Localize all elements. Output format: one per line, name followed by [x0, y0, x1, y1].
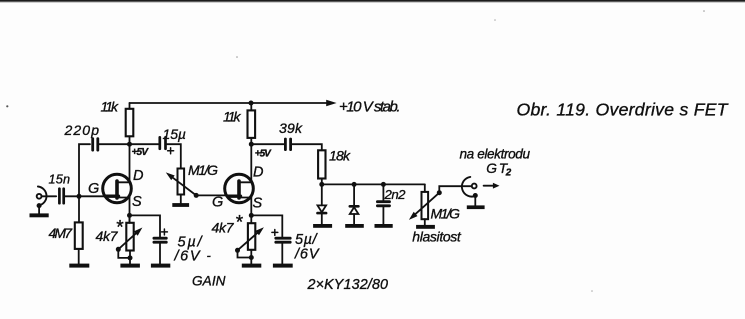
wire source Q1 down: [129, 198, 131, 223]
node trimmer1 bottom: [128, 255, 133, 260]
wire wiper to gate Q2: [196, 194, 228, 196]
wire bus to pot hlasitost: [424, 184, 426, 192]
wiper arrow 4k7 (stage 2): [235, 227, 264, 257]
wire +5V2 to C 39k: [251, 143, 283, 145]
svg-text:+10 V stab.: +10 V stab.: [339, 99, 401, 116]
wire 18k to bus: [321, 179, 323, 185]
wire 2n2 to ground: [382, 207, 384, 224]
wire wiper to output: [439, 186, 471, 193]
svg-text:D: D: [133, 168, 143, 184]
svg-text:*: *: [116, 218, 124, 239]
wire pot2 to ground: [424, 219, 426, 225]
wire drain Q2 up: [250, 144, 252, 182]
plus sign (15u): [168, 148, 174, 154]
wiper arm M1/G: [166, 172, 199, 198]
node trimmer2 bottom: [249, 255, 254, 260]
node bus/18k: [319, 182, 324, 187]
wire 4M7 to ground: [78, 249, 80, 264]
svg-text:2×KY132/80: 2×KY132/80: [307, 277, 389, 293]
node rail / 11k stage2: [249, 101, 254, 106]
potentiometer M1/G hlasitost: [422, 192, 429, 219]
wire diode D1: [321, 184, 323, 205]
wire to C 2n2: [382, 184, 384, 200]
wire C5u to ground: [159, 244, 161, 264]
wire C15u to pot M1/G: [167, 144, 181, 168]
wire input to C 15n: [42, 195, 57, 197]
capacitor 2n2: [377, 202, 389, 206]
wire bus: [322, 183, 425, 185]
plus sign (5u stage2): [272, 230, 278, 236]
wire 11k2 bottom: [250, 138, 252, 144]
resistor 4M7: [75, 222, 83, 249]
resistor 11k (stage 1): [126, 109, 134, 137]
ground (trimmer 1): [120, 264, 139, 268]
svg-text:-: -: [207, 248, 212, 263]
svg-text:220p: 220p: [64, 122, 100, 138]
ground (trimmer 2): [242, 264, 261, 268]
scan speck: [494, 19, 496, 21]
svg-text:GAIN: GAIN: [192, 274, 226, 289]
trimmer 4k7 (stage 1): [126, 223, 133, 251]
scan speck: [6, 105, 8, 107]
resistor 18k: [318, 150, 325, 178]
output jack J2: [462, 177, 478, 206]
wire 11k bottom to +5V node: [129, 136, 131, 144]
node +5V (stage 2): [249, 142, 254, 147]
input jack J1: [37, 187, 47, 214]
ground (C5u stage2): [273, 264, 293, 268]
svg-text:18k: 18k: [329, 148, 351, 164]
wire C39k to R 18k: [292, 144, 322, 150]
svg-text:15µ: 15µ: [163, 126, 187, 142]
arrow rail end: [326, 100, 336, 107]
svg-text:4k7: 4k7: [212, 220, 235, 236]
ground (2n2): [375, 224, 393, 228]
svg-text:G: G: [212, 194, 223, 210]
ground (pot hlasitost): [416, 225, 435, 229]
node S1: [127, 213, 132, 218]
capacitor 39k: [285, 139, 290, 150]
svg-text:39k: 39k: [279, 120, 303, 136]
svg-text:M1/G: M1/G: [431, 206, 461, 222]
wire S2 to trimmer 4k7 (2): [250, 198, 252, 224]
capacitor 5u/6V (stage 1): [154, 238, 166, 242]
svg-text:Obr. 119. Overdrive s FET: Obr. 119. Overdrive s FET: [517, 99, 729, 119]
svg-text:G: G: [88, 181, 99, 197]
node A (gate node): [77, 194, 82, 199]
capacitor 15u: [160, 137, 166, 149]
wire C220p to drain node: [99, 143, 129, 145]
wire pot M1/G to ground: [180, 195, 182, 204]
node bus/D2: [352, 182, 357, 187]
node bus/2n2: [381, 182, 386, 187]
wire node A to gate Q1: [79, 195, 106, 197]
potentiometer M1/G (stage 1): [178, 169, 185, 195]
node S2: [249, 213, 254, 218]
capacitor 5u/6V (stage 2): [276, 238, 290, 242]
plus sign (5u stage1): [162, 229, 168, 235]
ground (C5u stage1): [151, 264, 170, 268]
wire drain Q1 up: [129, 144, 131, 182]
wire +5V node to C 15u: [130, 143, 159, 145]
wire +10V power rail: [130, 102, 329, 104]
svg-text:11k: 11k: [223, 109, 242, 125]
scan speck: [236, 56, 238, 58]
wiper arrow 4k7 (stage 1): [116, 228, 143, 258]
svg-text:*: *: [235, 212, 243, 233]
svg-text:/6V: /6V: [294, 247, 320, 263]
svg-text:na elektrodu: na elektrodu: [460, 147, 531, 162]
svg-text:S: S: [132, 194, 142, 210]
wire C5u2 to ground: [281, 244, 283, 264]
svg-text:+5V: +5V: [132, 147, 150, 158]
diode D2: [350, 206, 359, 224]
svg-text:S: S: [253, 196, 263, 212]
wire S1 to C 5u: [130, 215, 161, 236]
node +5V (stage 1): [127, 142, 132, 147]
ground (input jack): [30, 213, 49, 217]
ground (D1): [313, 224, 332, 228]
wire diode D2: [353, 184, 355, 206]
svg-text:11k: 11k: [101, 98, 120, 114]
capacitor 220p: [93, 139, 98, 151]
wire C15n to node A: [65, 195, 79, 197]
svg-text:hlasitost: hlasitost: [412, 229, 462, 245]
ground (D2): [345, 224, 364, 228]
resistor 11k (stage 2): [248, 110, 256, 137]
wire 11k2 top to rail: [250, 103, 252, 110]
wire S2 to C 5u (2): [251, 215, 282, 236]
wiper arm hlasitost: [409, 190, 442, 220]
wire 11k top to rail: [129, 103, 131, 109]
ground (4M7): [69, 264, 89, 268]
transistor Q1 (FET): [103, 174, 132, 203]
svg-text:4M7: 4M7: [49, 225, 74, 241]
svg-text:M1/G: M1/G: [188, 162, 218, 178]
wire node A down to R 4M7: [78, 196, 80, 222]
svg-text:2n2: 2n2: [384, 187, 407, 202]
trimmer 4k7 (stage 2): [248, 223, 255, 250]
svg-text:2: 2: [505, 168, 512, 179]
wire S1 to trimmer 4k7: [129, 215, 131, 222]
transistor Q2 (FET): [225, 174, 254, 203]
scan speck: [591, 290, 593, 292]
scan speck: [703, 10, 705, 12]
scan page top edge bar: [0, 0, 745, 2]
output arrow: [484, 183, 500, 189]
ground (pot M1/G): [172, 203, 189, 207]
ground (output jack): [467, 205, 485, 209]
svg-text:D: D: [253, 165, 263, 181]
diode D1: [318, 205, 327, 224]
wire trimmer2 to ground: [250, 250, 252, 264]
svg-text:15n: 15n: [49, 173, 71, 187]
capacitor 15n: [59, 189, 63, 204]
svg-text:+5V: +5V: [255, 149, 272, 160]
wire trimmer1 to ground: [129, 251, 131, 264]
svg-text:/6V: /6V: [174, 249, 201, 265]
wire node A up to C 220p: [79, 144, 90, 196]
